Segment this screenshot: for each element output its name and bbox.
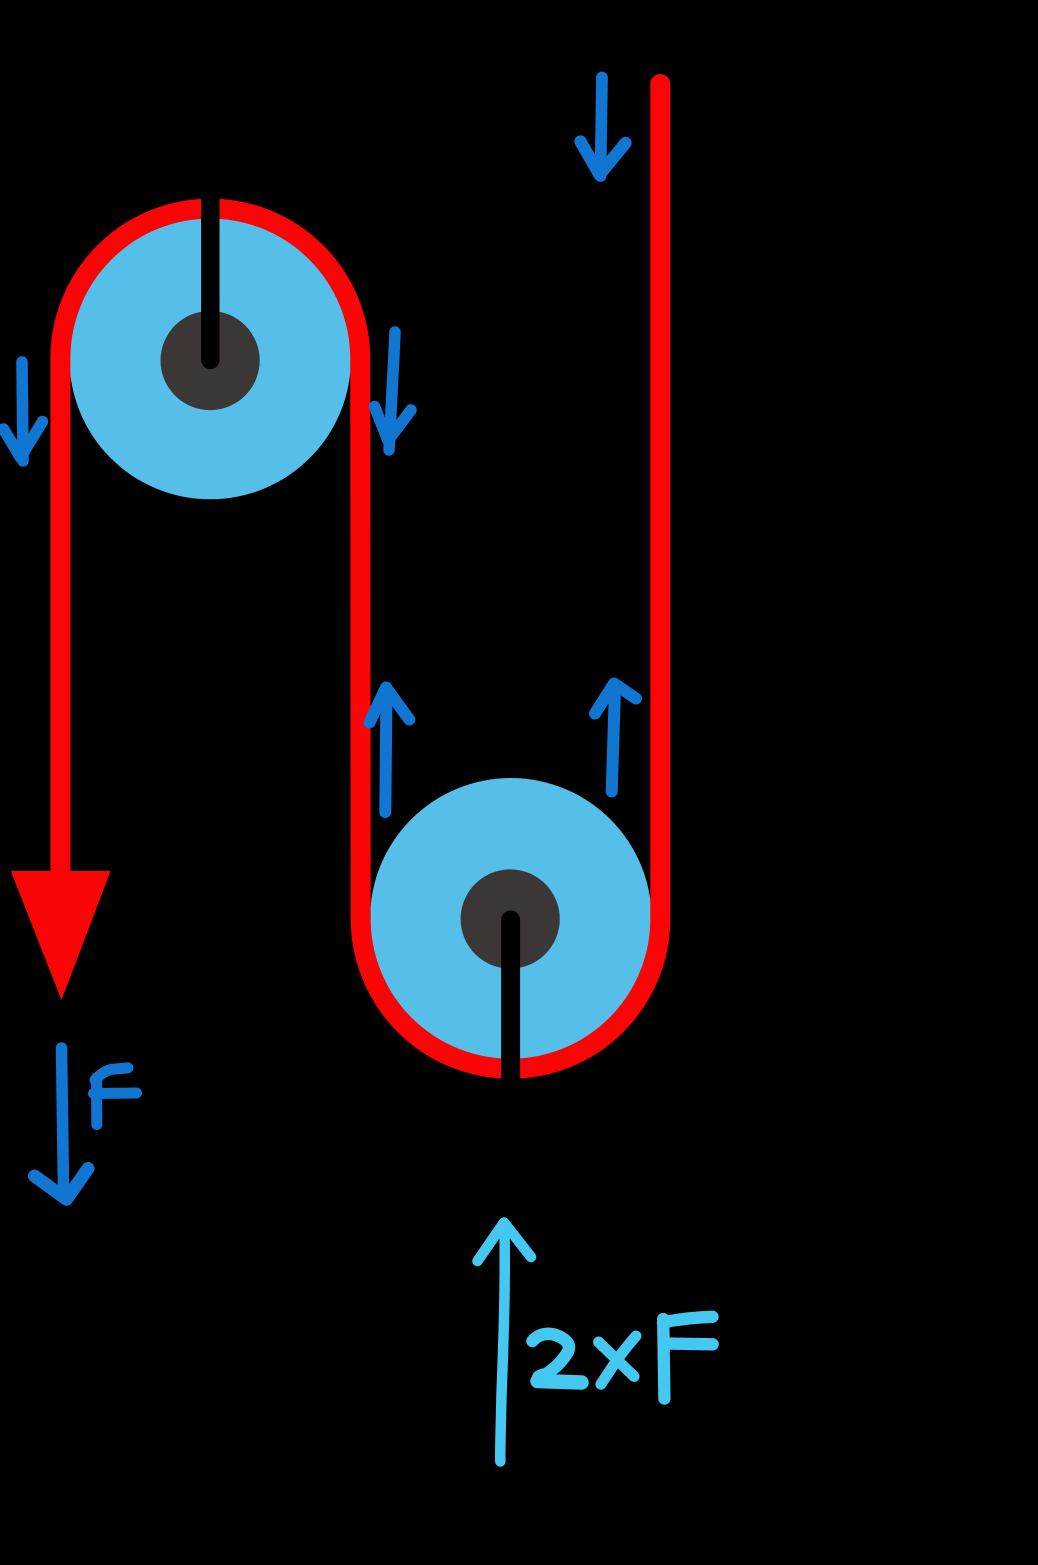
arrow E up (right side of bottom pulley) bbox=[595, 684, 636, 792]
label F (handwritten) bbox=[94, 1068, 137, 1125]
letter F bbox=[663, 1319, 664, 1399]
rope force arrowhead (red triangle) bbox=[11, 871, 111, 1000]
pulley P2 axle line bbox=[501, 920, 520, 1095]
pulley P2 hub bbox=[461, 869, 560, 968]
pulley P1 hub bbox=[161, 311, 260, 410]
rope (red cable over both pulleys) bbox=[60, 84, 660, 1069]
arrow B down (far left rope) bbox=[4, 362, 43, 461]
times sign x bbox=[599, 1342, 635, 1376]
pulley P1 axle line bbox=[201, 152, 219, 360]
arrow F down (applied force F) bbox=[35, 1048, 89, 1199]
arrow D up (left side of bottom pulley) bbox=[370, 688, 410, 813]
arrow A down (top right, rope pull direction) bbox=[581, 78, 626, 177]
pulley P2 wheel (bottom) bbox=[370, 778, 652, 1060]
digit 2 bbox=[533, 1334, 570, 1377]
arrow C down (middle rope, right of top pulley) bbox=[375, 332, 412, 450]
arrow G up (resulting force 2xF, cyan) bbox=[478, 1223, 532, 1462]
label 2xF (handwritten, cyan) bbox=[533, 1317, 713, 1399]
pulley P1 wheel (top) bbox=[69, 218, 351, 500]
